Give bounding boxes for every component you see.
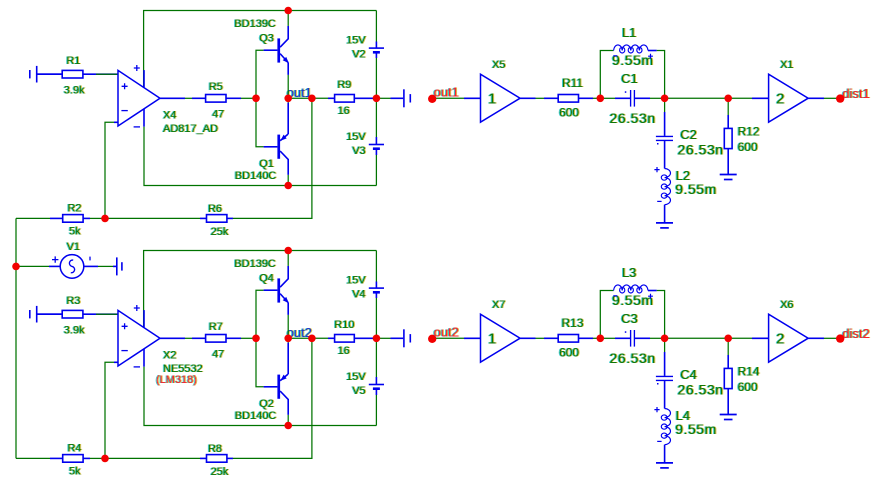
resistor R10 16 <box>328 319 379 357</box>
svg-text:R14: R14 <box>738 364 760 378</box>
output terminal out2 <box>378 329 410 347</box>
resistor R8 25k <box>105 443 233 478</box>
svg-text:V2: V2 <box>352 48 365 60</box>
battery V3 15V <box>346 131 384 157</box>
svg-text:R6: R6 <box>208 203 222 215</box>
junction load node R12 <box>724 95 732 103</box>
svg-text:5k: 5k <box>69 465 81 477</box>
resistor R3 3.9k <box>37 295 118 337</box>
svg-text:9.55m: 9.55m <box>675 421 717 437</box>
voltage source V1 <box>16 241 113 278</box>
svg-text:L1: L1 <box>622 25 636 40</box>
wire Q2 collector to rail <box>287 415 289 426</box>
svg-text:R10: R10 <box>334 319 354 331</box>
svg-text:V5: V5 <box>352 385 365 397</box>
wire Q4 collector to rail <box>287 251 289 266</box>
ground below L4 <box>656 463 673 468</box>
junction emitter node out1 <box>284 95 292 103</box>
wire to + input <box>96 313 118 315</box>
junction feedback tap out2 <box>308 335 316 343</box>
svg-text:R11: R11 <box>562 76 583 90</box>
battery V4 15V <box>346 275 384 301</box>
transistor Q3 BD139C <box>234 18 289 75</box>
inductor L2 9.55m <box>654 167 716 223</box>
node dist2 net dot <box>836 334 844 342</box>
svg-text:dist1: dist1 <box>842 86 869 101</box>
svg-text:2: 2 <box>776 331 784 348</box>
junction inverting input node X4 <box>101 215 109 223</box>
svg-text:600: 600 <box>559 106 579 120</box>
svg-text:R4: R4 <box>67 442 81 454</box>
svg-text:15V: 15V <box>346 131 366 143</box>
svg-text:C2: C2 <box>680 127 697 142</box>
svg-text:15V: 15V <box>346 371 366 383</box>
junction base node Q4/Q2 <box>252 335 260 343</box>
junction inverting input node X2 <box>101 455 109 463</box>
op-amp buffer X7 gain 1 <box>481 299 521 362</box>
svg-text:R13: R13 <box>561 316 583 330</box>
svg-text:R3: R3 <box>66 295 80 307</box>
wire Q2 emitter from output <box>287 338 289 342</box>
svg-text:out1: out1 <box>434 85 459 100</box>
capacitor C4 26.53n <box>656 338 724 408</box>
junction bottom rail / Q1 collector <box>284 182 292 190</box>
resistor R1 3.9k <box>37 55 118 97</box>
svg-text:V1: V1 <box>67 241 80 253</box>
wire to dist1 <box>808 97 824 99</box>
op-amp receiver X6 gain 2 <box>769 299 809 362</box>
wire Q3 emitter to output <box>287 75 289 98</box>
wire - input feedback <box>105 122 114 218</box>
capacitor C2 26.53n <box>656 98 724 168</box>
junction top rail / Q3 collector <box>284 7 292 15</box>
op-amp buffer X5 gain 1 <box>481 59 521 122</box>
wire battery column <box>375 251 377 282</box>
svg-text:16: 16 <box>338 105 350 117</box>
op-amp receiver X1 gain 2 <box>769 59 809 122</box>
svg-text:26.53n: 26.53n <box>610 350 656 366</box>
svg-text:R9: R9 <box>337 79 351 91</box>
wire to dist2 <box>808 337 824 339</box>
resistor R11 600 <box>544 76 593 120</box>
wire R2 to node <box>90 217 105 219</box>
svg-text:R8: R8 <box>208 443 222 455</box>
wire to + input <box>96 73 118 75</box>
junction filter mid node C2 <box>661 95 669 103</box>
svg-text:X6: X6 <box>780 299 793 311</box>
wire to line driver <box>434 97 464 99</box>
svg-text:BD140C: BD140C <box>235 410 277 422</box>
resistor R4 5k <box>16 442 90 477</box>
svg-text:out2: out2 <box>434 325 459 340</box>
resistor R14 600 <box>724 338 760 414</box>
resistor R12 600 <box>724 98 760 174</box>
wire bottom supply rail <box>144 367 376 426</box>
svg-text:BD139C: BD139C <box>234 258 276 270</box>
wire driver to series resistor <box>520 97 535 99</box>
wire to filter node <box>593 97 600 99</box>
svg-text:dist2: dist2 <box>842 326 869 341</box>
svg-text:R7: R7 <box>209 321 223 333</box>
svg-text:Q3: Q3 <box>259 32 274 44</box>
wire emitter node to R9 <box>288 97 334 99</box>
ground below R12 <box>720 175 737 180</box>
wire - input feedback <box>105 362 114 458</box>
junction load node R14 <box>724 335 732 343</box>
resistor R6 25k <box>105 203 233 238</box>
wire R4 to node <box>90 457 105 459</box>
svg-text:47: 47 <box>212 348 224 360</box>
inductor L3 9.55m <box>600 265 664 339</box>
wire R5 to base node <box>241 97 256 99</box>
svg-text:15V: 15V <box>346 35 366 47</box>
op-amp X2 NE5532 <box>118 305 203 386</box>
node dist1 net dot <box>836 94 844 102</box>
svg-text:C1: C1 <box>621 71 638 86</box>
junction supply midpoint node <box>373 95 381 103</box>
svg-text:9.55m: 9.55m <box>675 181 717 197</box>
svg-text:V4: V4 <box>352 288 365 300</box>
wire R5 to base node <box>241 337 256 339</box>
svg-text:5k: 5k <box>69 225 81 237</box>
inductor L4 9.55m <box>654 407 716 463</box>
svg-text:600: 600 <box>559 346 579 360</box>
svg-text:L3: L3 <box>622 265 636 280</box>
junction feedback tap out1 <box>308 95 316 103</box>
junction emitter node out2 <box>284 335 292 343</box>
wire to filter node <box>593 337 600 339</box>
wire top supply rail (V4) <box>144 251 377 328</box>
svg-text:NE5532: NE5532 <box>163 363 203 375</box>
junction supply midpoint node <box>373 335 381 343</box>
svg-text:(LM318): (LM318) <box>156 374 197 386</box>
svg-text:600: 600 <box>738 140 758 154</box>
svg-text:R12: R12 <box>738 124 760 138</box>
output terminal out1 <box>378 89 410 107</box>
ground below R14 <box>720 415 737 420</box>
svg-text:1: 1 <box>488 331 496 348</box>
node out1 net dot <box>428 95 436 103</box>
battery V2 15V <box>346 35 384 61</box>
wire Q1 collector to rail <box>287 175 289 186</box>
node out2 net dot <box>428 335 436 343</box>
svg-text:47: 47 <box>212 108 224 120</box>
svg-text:X4: X4 <box>163 109 176 121</box>
wire filter mid to load node <box>665 97 729 99</box>
svg-text:26.53n: 26.53n <box>610 110 656 126</box>
terminal V1 output <box>113 257 122 275</box>
svg-text:BD139C: BD139C <box>234 18 276 30</box>
op-amp X4 AD817_AD <box>118 65 218 135</box>
wire transistor bases <box>256 290 264 387</box>
svg-text:Q1: Q1 <box>259 158 274 170</box>
wire bottom supply rail <box>144 127 376 186</box>
junction filter mid node C4 <box>661 335 669 343</box>
svg-text:R2: R2 <box>67 202 81 214</box>
junction base node Q3/Q1 <box>252 95 260 103</box>
svg-text:X1: X1 <box>780 59 793 71</box>
transistor Q4 BD139C <box>234 258 289 315</box>
wire top supply rail (V2) <box>144 11 377 88</box>
wire driver to series resistor <box>520 337 535 339</box>
wire transistor bases <box>256 50 264 147</box>
wire emitter node to R9 <box>288 337 334 339</box>
svg-text:600: 600 <box>738 380 758 394</box>
junction V1 to source rail <box>12 263 20 271</box>
svg-text:25k: 25k <box>211 226 229 238</box>
wire R8 to out2 tap <box>233 338 312 458</box>
battery V5 15V <box>346 371 384 397</box>
resistor R13 600 <box>544 316 593 360</box>
wire Q3 collector to rail <box>287 11 289 26</box>
resistor R7 47 <box>160 321 241 360</box>
svg-text:3.9k: 3.9k <box>64 85 85 97</box>
svg-text:C4: C4 <box>680 367 697 382</box>
input terminal IN2 <box>30 306 62 323</box>
input terminal IN1 <box>30 66 62 83</box>
svg-text:16: 16 <box>338 345 350 357</box>
resistor R5 47 <box>160 81 241 120</box>
wire load node to receiver <box>728 337 752 339</box>
svg-text:C3: C3 <box>621 311 638 326</box>
svg-text:15V: 15V <box>346 275 366 287</box>
svg-text:X7: X7 <box>492 299 505 311</box>
wire battery column <box>375 11 377 42</box>
svg-text:R1: R1 <box>66 55 80 67</box>
svg-text:R5: R5 <box>209 81 223 93</box>
svg-text:2: 2 <box>776 91 784 108</box>
wire to line driver <box>434 337 464 339</box>
junction filter input node L3/C3 <box>597 335 605 343</box>
svg-text:BD140C: BD140C <box>235 170 277 182</box>
wire load node to receiver <box>728 97 752 99</box>
ground below L2 <box>656 223 673 228</box>
svg-text:X2: X2 <box>163 349 176 361</box>
svg-text:Q4: Q4 <box>259 272 274 284</box>
wire Q1 emitter from output <box>287 98 289 102</box>
svg-text:1: 1 <box>488 91 496 108</box>
wire filter mid to load node <box>665 337 729 339</box>
svg-text:V3: V3 <box>352 145 365 157</box>
transistor Q2 BD140C <box>235 343 288 422</box>
inductor L1 9.55m <box>600 25 664 99</box>
wire Q4 emitter to output <box>287 315 289 338</box>
capacitor C3 26.53n <box>603 311 665 366</box>
svg-text:X5: X5 <box>492 59 505 71</box>
resistor R9 16 <box>328 79 379 117</box>
svg-text:26.53n: 26.53n <box>678 381 724 397</box>
svg-text:9.55m: 9.55m <box>612 52 654 68</box>
svg-text:9.55m: 9.55m <box>612 292 654 308</box>
resistor R2 5k <box>16 202 90 237</box>
junction filter input node L1/C1 <box>597 95 605 103</box>
junction top rail / Q4 collector <box>284 247 292 255</box>
transistor Q1 BD140C <box>235 103 288 182</box>
svg-text:Q2: Q2 <box>259 398 274 410</box>
wire R6 to out1 tap <box>233 98 312 218</box>
svg-text:3.9k: 3.9k <box>64 325 85 337</box>
capacitor C1 26.53n <box>603 71 665 126</box>
junction bottom rail / Q2 collector <box>284 422 292 430</box>
wire left source rail <box>15 218 17 458</box>
svg-text:25k: 25k <box>211 466 229 478</box>
svg-text:AD817_AD: AD817_AD <box>163 123 218 135</box>
svg-text:26.53n: 26.53n <box>678 141 724 157</box>
